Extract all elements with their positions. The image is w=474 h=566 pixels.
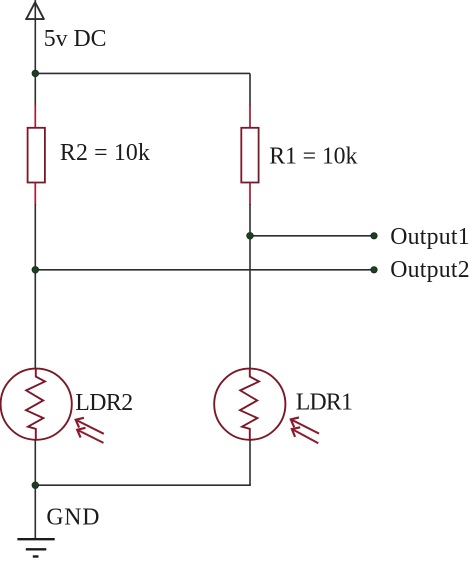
node Output1 terminal dot (371, 233, 377, 239)
LDR1 zigzag element (240, 369, 259, 441)
svg-text:LDR2: LDR2 (75, 390, 133, 416)
resistor R1 top lead (249, 105, 251, 128)
wire: right branch from top rail down to R1 top (249, 73, 251, 106)
LDR2 light arrow lower (77, 428, 103, 443)
svg-text:Output2: Output2 (390, 257, 470, 283)
wire: down to ground symbol (34, 485, 36, 539)
junction dot Output2 tap (32, 267, 39, 274)
wire: bottom horizontal rail (35, 484, 251, 486)
photoresistor LDR2 circle (1, 369, 72, 440)
svg-text:R2 = 10k: R2 = 10k (60, 140, 150, 166)
wire: right branch from R1 down to LDR1 (249, 204, 251, 369)
wire: Output2 horizontal (35, 269, 374, 271)
junction dot bottom left (32, 482, 39, 489)
wire: LDR2 bottom to ground rail (34, 440, 36, 485)
resistor R1 body (241, 128, 258, 183)
wire: power lead from top edge down left branch to R2 top (34, 0, 36, 106)
svg-text:Output1: Output1 (390, 224, 470, 250)
resistor R2 body (28, 128, 45, 183)
node Output2 terminal dot (371, 267, 377, 273)
wire: LDR1 bottom to ground rail (249, 440, 251, 485)
LDR2 light arrow upper (76, 418, 104, 434)
junction dot Output1 tap (247, 233, 254, 240)
svg-text:GND: GND (46, 504, 99, 530)
LDR2 zigzag element (26, 369, 45, 441)
LDR1 light arrow lower (292, 427, 318, 443)
wire: top horizontal rail (35, 72, 250, 74)
resistor R1 bottom lead (249, 183, 251, 206)
wire: left branch from R2 down to LDR2 (34, 204, 36, 369)
svg-text:5v DC: 5v DC (44, 26, 107, 52)
ground symbol (17, 539, 54, 556)
svg-text:LDR1: LDR1 (296, 389, 353, 415)
svg-text:R1 = 10k: R1 = 10k (269, 143, 357, 169)
LDR1 light arrow upper (291, 417, 319, 433)
resistor R2 bottom lead (34, 183, 36, 206)
junction dot at top of left branch (32, 70, 39, 77)
photoresistor LDR1 circle (214, 369, 285, 440)
wire: Output1 horizontal (250, 235, 374, 237)
resistor R2 top lead (34, 105, 36, 128)
power symbol 5v DC (up arrow triangle) (25, 2, 44, 19)
